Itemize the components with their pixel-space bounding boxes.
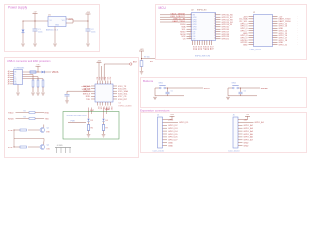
net label BOOT [204,88,211,90]
svg-text:GPIO_D4: GPIO_D4 [168,131,178,133]
ground of R3 [41,93,45,95]
svg-text:GND: GND [243,45,248,47]
svg-text:R6: R6 [91,128,93,130]
capacitor C6 [239,88,246,96]
svg-text:37: 37 [214,16,216,18]
svg-text:J1 USB4085: J1 USB4085 [14,67,25,69]
power flag +5V usb [36,64,41,72]
regulator U1 [48,14,66,26]
svg-text:RXD0: RXD0 [8,119,14,121]
svg-text:IO38: IO38 [204,46,206,50]
svg-text:ESP32-S3: ESP32-S3 [197,10,207,12]
wire module vdd2 [101,66,103,81]
value AMS1117 [46,29,59,32]
ground of C2 [86,44,90,46]
global label top right [130,61,138,65]
net label DTR [8,130,13,132]
transistor Q2 [40,145,51,151]
svg-text:IO8: IO8 [193,36,196,38]
svg-text:TXD: TXD [45,119,50,121]
section title: MCU [159,6,167,10]
section title: Expansion [140,108,170,112]
svg-text:J4 SWD: J4 SWD [57,145,64,147]
power flag +3V3 [86,12,91,22]
svg-text:GND: GND [168,143,173,145]
svg-text:IO18_INT: IO18_INT [118,99,128,101]
wire long top [104,64,129,81]
capacitor C2 [86,21,96,43]
connector J6 body [233,115,239,148]
svg-text:IO48: IO48 [105,109,109,111]
usb shield pin [17,85,19,93]
capacitor C5 [166,88,173,96]
svg-text:GPIO_A4: GPIO_A4 [244,130,254,133]
module U4 right pins and labels [113,86,128,101]
wire cross-couple horizontal [14,139,44,142]
svg-text:RXD: RXD [45,113,50,115]
net label EN pull [150,61,153,63]
ground pin of U1 [54,27,56,44]
svg-text:IO15_SDA: IO15_SDA [118,90,128,93]
wire decoupling [67,91,91,94]
svg-text:10: 10 [189,35,191,37]
svg-text:IO6: IO6 [110,77,112,80]
capacitor C4 [65,94,70,100]
net label RXD [45,113,50,115]
ground of LED D3 [87,135,91,137]
module U4 left pins and labels [83,86,95,101]
resistor R7 [102,122,108,134]
svg-text:GND: GND [168,145,173,147]
transistor Q1 collector [43,125,45,128]
svg-text:32: 32 [214,28,216,30]
resistor row 1 [16,111,45,114]
power flag +3V3 module [97,60,102,80]
svg-text:GPIO_A3: GPIO_A3 [244,127,254,130]
svg-text:ESP32-WROOM: ESP32-WROOM [195,56,210,58]
svg-text:+3V3: +3V3 [170,114,174,116]
wire to led1 [89,108,95,119]
svg-text:Conn_02x13: Conn_02x13 [250,49,262,51]
svg-text:GPIO_A5: GPIO_A5 [244,133,254,136]
svg-text:36: 36 [214,18,216,20]
svg-text:28: 28 [214,38,216,40]
net label VBUS [52,71,59,74]
transistor Q1 [40,128,50,134]
svg-text:BOOT: BOOT [204,88,211,90]
svg-text:GPIO_A1: GPIO_A1 [255,121,265,124]
svg-text:IO7: IO7 [97,107,99,110]
svg-text:D3: D3 [91,120,93,122]
svg-text:100n: 100n [38,31,42,33]
svg-text:IO7: IO7 [193,34,196,36]
ground of LED D4 [102,135,106,137]
svg-text:IO39: IO39 [207,46,209,50]
svg-text:USB_DP: USB_DP [82,89,91,91]
wire to led2 [104,108,110,119]
net label TXD [45,119,50,121]
svg-text:GPIO_D7: GPIO_D7 [168,140,178,142]
ground of SW2 [226,97,230,99]
wire +5V rail [23,21,49,22]
wire fuse to diode [36,72,41,73]
section title: Power supply [8,6,28,10]
mcu U2 value [195,56,210,58]
header J2 value [250,49,262,51]
svg-text:C5: C5 [171,91,173,93]
svg-text:RTS: RTS [8,147,13,149]
header J2 pins and labels [239,16,298,46]
svg-text:IO35: IO35 [197,46,199,50]
svg-text:D+: D+ [14,76,16,78]
ground of U1 [53,44,57,46]
wire SW2 out [239,88,260,89]
svg-text:TXD0: TXD0 [8,113,14,115]
fuse F1 [30,71,36,73]
section box: power supply [5,5,100,52]
svg-text:IO6: IO6 [193,31,196,33]
svg-text:GPIO_A2: GPIO_A2 [244,124,254,127]
usb J1 body [14,67,25,85]
svg-text:+3V3: +3V3 [68,19,72,21]
resistor R5 [14,146,40,148]
power flag +3V3 pull [139,49,144,61]
svg-text:+3V3: +3V3 [97,60,101,62]
button SW2 [232,83,239,89]
resistor row 2 [16,117,45,120]
svg-text:38: 38 [214,14,216,16]
svg-text:Conn_01x10: Conn_01x10 [228,151,240,153]
svg-text:Conn_01x10: Conn_01x10 [153,151,165,153]
net label TXD0 [8,113,14,115]
section title: Buttons [143,79,154,83]
svg-text:GPIO_A7: GPIO_A7 [244,139,254,142]
resistor R9 [140,61,143,72]
svg-text:GPIO21: GPIO21 [222,39,230,41]
svg-text:SB: SB [14,81,16,83]
net label RXD0 [8,119,14,121]
svg-text:IO36: IO36 [199,46,201,50]
svg-text:IO40: IO40 [209,46,211,50]
svg-text:R7: R7 [106,128,108,130]
section box: Expansion connectors [141,113,307,153]
connector J6 value [228,151,240,153]
net label +3V3 out [68,19,72,21]
svg-text:GPIO_A6: GPIO_A6 [244,136,254,139]
LED D4 [102,119,108,122]
svg-text:Expansion connectors: Expansion connectors [140,108,170,112]
svg-text:R2: R2 [24,111,26,113]
mcu U2 bottom pins and labels [192,41,213,51]
svg-text:30: 30 [214,33,216,35]
wire led1 data [91,108,93,115]
ground of J1 [16,93,20,95]
svg-text:UART_TXD0: UART_TXD0 [172,20,186,23]
svg-text:Buttons: Buttons [143,79,154,83]
svg-text:100n: 100n [91,31,95,33]
ground of C4 [65,101,69,103]
svg-text:PWR: PWR [71,120,76,122]
svg-text:VO: VO [62,20,65,22]
svg-text:31: 31 [214,30,216,32]
svg-text:GND: GND [244,143,249,145]
module U4 body [95,84,113,102]
power flag connector J6 [243,114,251,119]
transistor Q2 collector [43,142,45,145]
ground of D1 [21,44,25,46]
svg-text:GPIO_21: GPIO_21 [279,45,288,47]
svg-text:IO33: IO33 [192,46,194,50]
button SW1 [159,83,166,89]
svg-text:+3V3: +3V3 [140,49,144,51]
svg-text:R3: R3 [24,117,26,119]
diode D1 [22,21,25,43]
wire U1 output [66,19,88,23]
connector J6 pins and labels [238,119,265,147]
svg-text:IO9: IO9 [193,39,196,41]
connector J5 pins and labels [163,119,190,147]
header J4 [55,145,71,153]
svg-text:U4: U4 [119,103,121,105]
svg-text:DTR: DTR [8,130,13,132]
section box: Buttons [141,78,307,108]
svg-text:VBUS: VBUS [52,71,59,74]
svg-text:GPIO_D1: GPIO_D1 [179,122,189,124]
svg-text:RESET: RESET [261,88,269,90]
module U4 top pins and labels [97,77,112,84]
svg-text:GPIO_D5: GPIO_D5 [168,134,178,136]
svg-text:IO8: IO8 [100,107,102,110]
svg-text:R9 10k: R9 10k [144,57,150,59]
module U4 ref and value [119,103,132,108]
svg-text:34: 34 [214,23,216,25]
ground of C1 [33,44,37,46]
svg-text:IO37: IO37 [202,46,204,50]
wire usb D- [23,75,34,81]
svg-text:GPIO_D3: GPIO_D3 [168,128,178,130]
svg-text:GND: GND [244,145,249,147]
resistors R1 R2 R3 [32,80,44,92]
LED D3 [87,119,93,122]
mcu U2 left pins [187,14,198,41]
svg-text:+3V3: +3V3 [86,12,90,14]
svg-text:IO12: IO12 [110,107,112,111]
connector J5 value [153,151,165,153]
svg-text:29: 29 [214,35,216,37]
wire usb D+ [23,77,39,80]
wire VBUS [23,71,31,73]
mcu U2 body [191,10,216,41]
green box label [67,115,87,117]
svg-text:GND: GND [55,24,60,26]
green group box [63,112,119,140]
wire led2 data [106,108,108,115]
wire SW2 gnd [228,88,257,96]
wire SW1 gnd [155,88,184,96]
ground of R1 [31,93,35,95]
usb J1 left pins [8,70,14,86]
svg-text:USB-C connector and ESD protec: USB-C connector and ESD protection [7,59,51,63]
wire SW1 out [166,88,203,89]
capacitor C1 [33,21,43,43]
module U4 bottom pins and labels [97,102,112,110]
net label RTS [8,147,13,149]
svg-text:GPIO_D2: GPIO_D2 [168,125,178,127]
diode D2 [42,71,52,73]
wire pull stub [141,57,155,59]
svg-text:33: 33 [214,26,216,28]
power flag connector J5 [167,114,175,119]
section title: USB-C connector / ESD [7,59,51,63]
svg-text:MCU: MCU [159,6,167,10]
wire cross-couple vertical [13,130,15,147]
svg-text:D4: D4 [106,120,108,122]
svg-text:IO41: IO41 [211,46,213,50]
resistor R4 [14,129,40,131]
section box: USB and module [5,58,139,158]
svg-text:VB: VB [14,72,16,74]
header J2 body [253,12,273,47]
ground of R2 [36,93,40,95]
svg-text:AMS1117-3.3: AMS1117-3.3 [46,29,59,32]
wire led rail [68,120,86,122]
svg-text:WS2812B RGB LEDs: WS2812B RGB LEDs [67,115,87,117]
mcu U2 left net labels [160,14,187,41]
svg-text:TXD: TXD [86,99,91,101]
ground of R9 [140,72,144,74]
mcu U2 right pins and labels [214,14,233,41]
svg-text:11: 11 [189,38,191,40]
module U4 left bright labels [81,86,91,91]
svg-text:35: 35 [214,21,216,23]
ground of SW1 [153,97,157,99]
power flag +5V [33,11,38,21]
svg-text:C6: C6 [244,91,246,93]
svg-text:GN: GN [14,83,16,85]
net label RESET [261,88,269,90]
svg-text:ESP32-C3-MINI: ESP32-C3-MINI [119,106,132,108]
svg-text:GPIO_D6: GPIO_D6 [168,137,178,139]
section box: MCU [156,5,307,60]
connector J5 body [157,115,163,148]
resistor R6 [87,122,93,134]
svg-text:Power supply: Power supply [8,6,28,10]
wire usb CC [23,79,44,80]
svg-text:IO34: IO34 [195,46,197,50]
